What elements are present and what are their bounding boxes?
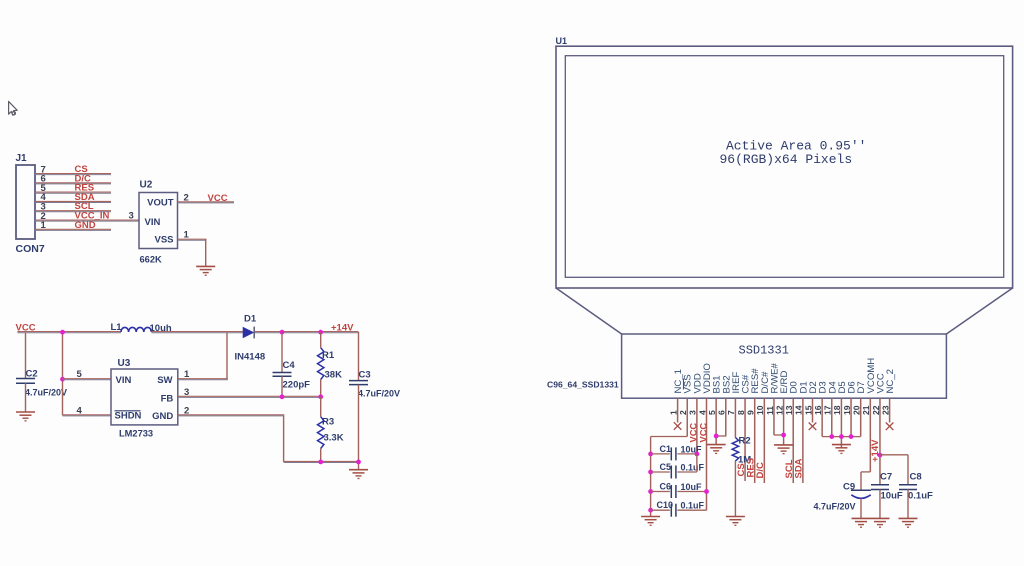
junction dot R3 bottom bbox=[318, 460, 323, 465]
svg-text:1: 1 bbox=[41, 220, 47, 231]
wire R2 to ground bbox=[734, 461, 736, 517]
resistor R2 value 1M bbox=[738, 455, 751, 466]
U1 pin name NC_2 bbox=[885, 369, 896, 394]
capacitor C4 bbox=[273, 373, 292, 377]
regulator U3 body bbox=[111, 369, 178, 425]
capacitor C10 bbox=[671, 504, 676, 517]
wire C1 left bbox=[651, 453, 670, 455]
resistor R1 bbox=[318, 348, 324, 380]
ground bottom right of boost bbox=[349, 470, 368, 479]
net label VCC on VDD pin bbox=[689, 423, 699, 443]
svg-text:VIN: VIN bbox=[116, 375, 132, 386]
U1 pin name CS# bbox=[741, 374, 752, 393]
ground under data pins bbox=[832, 445, 851, 454]
wire J1 pin 1 net GND bbox=[35, 229, 111, 230]
svg-text:+14V: +14V bbox=[870, 439, 881, 462]
U1 pin number 1 bbox=[668, 410, 678, 415]
capacitor C5 value bbox=[681, 462, 705, 472]
U3 part value LM2733 bbox=[119, 429, 153, 439]
svg-text:SDA: SDA bbox=[794, 458, 805, 478]
wire U1 pin 23 NC_2 bbox=[889, 398, 891, 422]
capacitor C9 bbox=[851, 490, 871, 498]
wire C7 to ground bbox=[879, 490, 881, 519]
junction dot D6 bbox=[849, 434, 854, 439]
wire SW up to rail bbox=[226, 333, 228, 380]
wire to U3 SHDN pin 4 bbox=[63, 415, 112, 416]
wire C6 left bbox=[651, 491, 670, 493]
capacitor C3 bbox=[349, 381, 368, 385]
U1 pin number 20 bbox=[851, 405, 861, 415]
ground under R2 bbox=[726, 517, 745, 526]
pin number 3 U3 FB bbox=[184, 387, 189, 398]
net label RES on pin 9 bbox=[745, 458, 756, 478]
resistor R3 label bbox=[322, 417, 334, 428]
U1 pin number 14 bbox=[794, 405, 804, 415]
junction dot left rail C1 bbox=[648, 452, 653, 457]
wire VSS elbow bbox=[651, 436, 688, 438]
capacitor C1 bbox=[671, 447, 676, 460]
capacitor C2 value bbox=[25, 388, 67, 398]
wire VCC rail left bbox=[17, 332, 121, 333]
capacitor C7 label bbox=[880, 472, 892, 483]
svg-text:1: 1 bbox=[184, 230, 190, 241]
U1 pin name VCOMH bbox=[866, 358, 877, 394]
wire U1 pin 10 D/C# bbox=[763, 398, 765, 483]
net label GND bbox=[75, 220, 96, 231]
wire to U3 VIN pin 5 bbox=[63, 379, 112, 380]
ground under C7 bbox=[870, 518, 889, 527]
capacitor C8 bbox=[899, 485, 917, 490]
display part name C96_64_SSD1331 bbox=[547, 380, 619, 390]
wire U1 pin 9 RES# bbox=[754, 398, 756, 483]
svg-text:D1: D1 bbox=[244, 314, 257, 325]
wire U3 GND pin 2 bbox=[178, 415, 284, 416]
display U1 left bezel line bbox=[556, 288, 622, 334]
U3 pin name VIN bbox=[116, 375, 132, 386]
wire C4 stem bottom bbox=[281, 376, 283, 397]
wire U3 SW pin 1 bbox=[178, 379, 228, 380]
wire J1 pin 3 net SCL bbox=[35, 211, 111, 212]
display U1 label bbox=[556, 36, 568, 46]
resistor R1 label bbox=[322, 350, 335, 361]
U1 pin number 10 bbox=[755, 405, 765, 415]
wire BS2 elbow bbox=[716, 435, 726, 437]
wire U1 pin 22 VCC bbox=[879, 398, 881, 485]
U1 pin name VDD bbox=[692, 373, 703, 393]
ground under BS pins bbox=[707, 445, 726, 454]
capacitor C1 value bbox=[681, 444, 703, 454]
pin number 2 U2 VOUT bbox=[184, 193, 189, 204]
capacitor C1 label bbox=[660, 444, 672, 454]
U1 pin name D/C# bbox=[760, 371, 771, 394]
wire C1 right bbox=[677, 453, 696, 455]
wire U1 pin 17 D4 bbox=[831, 398, 833, 436]
U1 pin name D1 bbox=[798, 381, 809, 393]
U1 pin name R/WE# bbox=[769, 362, 780, 393]
ground under ERD bbox=[774, 445, 793, 454]
wire C3 stem top bbox=[358, 332, 360, 381]
capacitor C3 label bbox=[359, 370, 371, 381]
U1 pin name D4 bbox=[827, 381, 838, 394]
U1 pin name NC_1 bbox=[673, 369, 684, 394]
capacitor C7 value 10uF bbox=[881, 491, 903, 502]
svg-text:2: 2 bbox=[184, 193, 189, 204]
U1 pin name D2 bbox=[808, 381, 819, 393]
U1 pin number 11 bbox=[765, 406, 775, 415]
junction dot C3 bottom bbox=[356, 460, 361, 465]
U1 pin number 13 bbox=[784, 405, 794, 415]
junction dot D5 bbox=[839, 434, 844, 439]
junction dot left rail C5 bbox=[648, 470, 653, 475]
svg-text:C3: C3 bbox=[359, 370, 371, 381]
svg-text:C8: C8 bbox=[910, 472, 922, 483]
U1 pin number 17 bbox=[823, 405, 833, 415]
wire R3 stub top bbox=[320, 397, 322, 417]
ground under C8 bbox=[899, 518, 918, 527]
svg-text:IN4148: IN4148 bbox=[235, 352, 266, 363]
svg-text:U2: U2 bbox=[140, 180, 153, 191]
U1 pin name D5 bbox=[837, 381, 848, 393]
net label SCL bbox=[75, 201, 94, 212]
connector J1 name CON7 bbox=[16, 243, 45, 255]
capacitor C7 bbox=[871, 485, 889, 490]
wire U1 pin 11 R/WE# bbox=[773, 398, 775, 435]
junction dot FB node bbox=[318, 394, 323, 399]
U1 pin name D6 bbox=[847, 381, 858, 393]
U1 pin name E/RD bbox=[779, 371, 790, 394]
U1 pin number 8 bbox=[736, 410, 746, 415]
capacitor C10 label bbox=[657, 500, 674, 510]
U1 pin number 2 bbox=[678, 410, 688, 415]
resistor R2 label bbox=[739, 436, 751, 447]
wire U1 pin 19 D6 bbox=[850, 398, 852, 436]
capacitor C6 bbox=[671, 485, 676, 498]
capacitor C5 bbox=[671, 466, 676, 479]
capacitor C2 bbox=[16, 379, 35, 384]
net label RES bbox=[75, 183, 95, 194]
wire rail L1 to D1 bbox=[151, 332, 243, 333]
ground under C2 bbox=[16, 412, 35, 421]
net label D/C on pin 10 bbox=[755, 462, 766, 479]
diode D1 bbox=[243, 327, 254, 339]
svg-text:LM2733: LM2733 bbox=[119, 429, 153, 439]
svg-text:VCC: VCC bbox=[689, 423, 699, 443]
U1 pin number 3 bbox=[688, 410, 698, 415]
net label CS bbox=[75, 164, 88, 175]
svg-text:VSS: VSS bbox=[154, 235, 173, 246]
wire C9 to ground bbox=[860, 499, 862, 519]
display active area text line 1 bbox=[726, 139, 866, 154]
pin number 3 J1 bbox=[41, 202, 46, 213]
capacitor C2 label bbox=[26, 369, 38, 380]
svg-text:2: 2 bbox=[184, 405, 189, 416]
capacitor C8 label bbox=[910, 472, 922, 483]
wire U1 pin 21 VCOMH bbox=[869, 398, 871, 472]
svg-text:U1: U1 bbox=[556, 36, 568, 46]
U1 pin name D7 bbox=[856, 381, 867, 393]
wire VDD down to C5 bbox=[696, 454, 698, 472]
wire C5 left bbox=[651, 471, 670, 473]
capacitor C3 value bbox=[358, 389, 400, 399]
pin number 1 U3 SW bbox=[184, 369, 190, 380]
U1 pin name VCC bbox=[875, 373, 886, 393]
inductor L1 label bbox=[111, 322, 123, 333]
display U1 inner screen bbox=[565, 56, 1003, 278]
U1 pin name BS2 bbox=[721, 375, 732, 393]
wire U1 pin 18 D5 bbox=[840, 398, 842, 448]
wire C5 right bbox=[677, 471, 696, 473]
resistor R2 bbox=[732, 438, 738, 462]
svg-text:4.7uF/20V: 4.7uF/20V bbox=[814, 502, 856, 512]
wire RWE elbow bbox=[774, 434, 784, 436]
wire U1 pin 14 D1 bbox=[802, 398, 804, 483]
U1 pin name D3 bbox=[818, 381, 829, 393]
capacitor C4 label bbox=[283, 360, 296, 371]
junction dot D4 bbox=[829, 434, 834, 439]
svg-text:38K: 38K bbox=[325, 370, 343, 381]
svg-text:J1: J1 bbox=[16, 153, 28, 164]
U2 pin name VSS bbox=[154, 235, 173, 246]
U2 pin name VOUT bbox=[147, 198, 174, 209]
U1 pin number 7 bbox=[726, 410, 736, 415]
svg-text:D/C: D/C bbox=[755, 462, 766, 479]
net label VCC on VDDIO pin bbox=[698, 423, 708, 443]
U3 pin name GND bbox=[152, 411, 173, 422]
svg-text:3: 3 bbox=[129, 211, 134, 222]
net label SDA on pin 14 bbox=[794, 458, 805, 478]
svg-text:VIN: VIN bbox=[145, 217, 161, 228]
diode D1 label bbox=[244, 314, 257, 325]
U1 pin name RES# bbox=[750, 368, 761, 394]
wire U3 FB pin 3 bbox=[178, 396, 321, 397]
wire VCOMH down bbox=[860, 472, 862, 490]
wire C8 to ground bbox=[907, 490, 909, 519]
U1 pin number 6 bbox=[717, 410, 727, 415]
diode D1 value IN4148 bbox=[235, 352, 266, 363]
junction dot C4 top bbox=[280, 330, 285, 335]
wire 14V to C8 bbox=[880, 454, 908, 456]
svg-text:C96_64_SSD1331: C96_64_SSD1331 bbox=[547, 380, 619, 390]
wire data bus elbow bbox=[822, 436, 861, 438]
svg-text:0.1uF: 0.1uF bbox=[681, 501, 705, 511]
svg-text:C1: C1 bbox=[660, 444, 672, 454]
ground under U2 bbox=[196, 266, 215, 275]
wire C3 stem bottom bbox=[358, 385, 360, 470]
wire U2 VSS pin 1 bbox=[178, 239, 207, 240]
svg-text:4.7uF/20V: 4.7uF/20V bbox=[25, 388, 67, 398]
wire U1 pin 15 D2 bbox=[812, 398, 814, 422]
U1 pin number 4 bbox=[697, 410, 707, 415]
capacitor C5 label bbox=[660, 462, 672, 472]
svg-text:5: 5 bbox=[77, 369, 83, 380]
resistor R3 value 3.3K bbox=[324, 433, 344, 444]
regulator U3 label bbox=[118, 358, 131, 369]
wire R1 stub top bbox=[320, 333, 322, 348]
pin number 2 J1 bbox=[41, 211, 46, 222]
capacitor C9 value bbox=[814, 502, 856, 512]
display U1 right bezel line bbox=[946, 288, 1012, 334]
wire U1 pin 4 VDDIO bbox=[706, 398, 708, 510]
junction dot VDDIO C6 bbox=[704, 489, 709, 494]
pin number 1 U2 VSS bbox=[184, 230, 190, 241]
capacitor C4 value 220pF bbox=[283, 380, 311, 391]
net label +14V bbox=[331, 323, 354, 334]
pin number 5 U3 bbox=[77, 369, 83, 380]
resistor R3 bbox=[318, 417, 324, 449]
pin number 4 J1 bbox=[41, 192, 47, 203]
wire U2 VOUT pin 2 bbox=[178, 202, 235, 203]
net label VCC rail bbox=[16, 323, 36, 334]
junction dot left rail C6 bbox=[648, 489, 653, 494]
U3 pin name SW bbox=[157, 375, 172, 386]
svg-text:+14V: +14V bbox=[331, 323, 354, 334]
wire C2 stem top bbox=[25, 333, 27, 379]
pin number 5 J1 bbox=[41, 183, 47, 194]
U1 pin number 21 bbox=[861, 405, 871, 415]
U1 pin name BS1 bbox=[712, 375, 723, 393]
capacitor C10 value bbox=[681, 501, 705, 511]
svg-text:3.3K: 3.3K bbox=[324, 433, 344, 444]
U1 pin name VDDIO bbox=[702, 363, 713, 393]
svg-text:4: 4 bbox=[77, 406, 83, 417]
wire U1 pin 12 E/RD bbox=[783, 398, 785, 445]
wire U1 pin 5 BS1 bbox=[715, 398, 717, 444]
net label +14V on VCC pin bbox=[870, 439, 881, 462]
U1 pin name D0 bbox=[789, 381, 800, 393]
wire C8 stem bbox=[907, 455, 909, 485]
wire U1 pin 7 IREF bbox=[734, 398, 736, 437]
wire C2 stem bottom bbox=[25, 383, 27, 412]
resistor R1 value 38K bbox=[325, 370, 343, 381]
net label SDA bbox=[75, 192, 95, 203]
wire GND down bbox=[283, 415, 285, 462]
op-amp U2 label bbox=[140, 180, 153, 191]
svg-text:C4: C4 bbox=[283, 360, 296, 371]
U1 pin number 15 bbox=[803, 405, 813, 415]
junction dot RWE ERD bbox=[781, 433, 786, 438]
pin number 7 J1 bbox=[41, 164, 46, 175]
svg-text:GND: GND bbox=[152, 411, 173, 422]
net label D/C bbox=[75, 173, 92, 184]
wire R1 stub bottom bbox=[320, 380, 322, 397]
U1 pin number 23 bbox=[880, 405, 890, 415]
ground under C9 bbox=[852, 518, 871, 527]
U2 pin name VIN bbox=[145, 217, 161, 228]
wire VCOMH elbow bbox=[861, 471, 870, 473]
wire U1 pin 13 D0 bbox=[792, 398, 794, 483]
wire J1 pin 4 net SDA bbox=[35, 201, 111, 202]
capacitor C6 label bbox=[660, 482, 672, 492]
display controller name SSD1331 bbox=[739, 344, 789, 358]
pin number 1 J1 bbox=[41, 220, 47, 231]
mouse cursor bbox=[9, 101, 18, 115]
wire C4 stem top bbox=[281, 333, 283, 373]
U1 pin number 9 bbox=[745, 410, 755, 415]
wire J1 pin 5 net RES bbox=[35, 192, 111, 193]
svg-text:VCC: VCC bbox=[698, 423, 708, 443]
U1 pin number 22 bbox=[871, 405, 881, 415]
wire J1 pin 6 net D/C bbox=[35, 183, 111, 184]
svg-text:VOUT: VOUT bbox=[147, 198, 174, 209]
junction dot VCC rail bbox=[60, 330, 65, 335]
svg-text:10uF: 10uF bbox=[681, 482, 703, 492]
ground under cap bank bbox=[641, 517, 660, 526]
wire U1 pin 2 VSS bbox=[686, 398, 688, 436]
svg-text:C6: C6 bbox=[660, 482, 672, 492]
junction dot VCC 14V bbox=[878, 453, 883, 458]
svg-text:GND: GND bbox=[75, 220, 96, 231]
wire U1 pin 3 VDD bbox=[696, 398, 698, 454]
svg-text:U3: U3 bbox=[118, 358, 131, 369]
U1 pin name IREF bbox=[731, 372, 742, 394]
svg-text:SW: SW bbox=[157, 375, 172, 386]
U2 part value 662K bbox=[140, 255, 163, 265]
svg-text:SSD1331: SSD1331 bbox=[739, 344, 789, 358]
wire U1 pin 1 NC_1 bbox=[677, 398, 679, 422]
inductor L1 bbox=[121, 327, 151, 332]
net label VCC at U2 output bbox=[208, 193, 228, 204]
display U1 outer body bbox=[556, 46, 1013, 288]
net label CS on pin 8 bbox=[736, 463, 747, 476]
U1 pin number 19 bbox=[842, 405, 852, 415]
wire U1 pin 8 CS# bbox=[744, 398, 746, 481]
capacitor C9 label bbox=[843, 482, 855, 493]
pin number 3 U2 VIN bbox=[129, 211, 134, 222]
U1 pin number 12 bbox=[774, 405, 784, 415]
svg-text:R3: R3 bbox=[322, 417, 334, 428]
wire J1 pin 2 net VCC_IN bbox=[35, 220, 139, 221]
wire U2 VSS to ground bbox=[205, 239, 207, 266]
inductor L1 value 10uh bbox=[150, 323, 172, 334]
wire R3 stub bottom bbox=[320, 449, 322, 462]
junction dot VDD C1 bbox=[694, 452, 699, 457]
svg-text:4.7uF/20V: 4.7uF/20V bbox=[358, 389, 400, 399]
wire rail D1 to C3 bbox=[255, 332, 359, 333]
no-connect X pin 1 bbox=[674, 422, 682, 430]
svg-text:FB: FB bbox=[161, 393, 174, 404]
U3 pin name FB bbox=[161, 393, 174, 404]
junction dot left rail C10 bbox=[648, 508, 653, 513]
no-connect X pin 23 bbox=[886, 423, 894, 431]
U3 pin name SHDN bbox=[115, 411, 142, 422]
svg-text:1: 1 bbox=[184, 369, 190, 380]
svg-text:C5: C5 bbox=[660, 462, 672, 472]
wire bottom rail bbox=[284, 461, 359, 462]
U1 pin number 5 bbox=[707, 410, 717, 415]
junction dot VIN branch bbox=[60, 377, 65, 382]
svg-text:R2: R2 bbox=[739, 436, 751, 447]
connector J1 body bbox=[16, 165, 35, 239]
svg-text:C7: C7 bbox=[880, 472, 892, 483]
svg-text:SHDN: SHDN bbox=[115, 411, 142, 422]
wire C10 right bbox=[677, 509, 706, 511]
wire C6 right bbox=[677, 491, 706, 493]
display U1 pin block bbox=[622, 334, 947, 398]
svg-text:0.1uF: 0.1uF bbox=[681, 462, 705, 472]
svg-text:0.1uF: 0.1uF bbox=[908, 491, 933, 502]
junction dot C4 bottom bbox=[280, 394, 285, 399]
wire U1 pin 20 D7 bbox=[860, 398, 862, 436]
junction dot R1 top bbox=[318, 330, 323, 335]
capacitor C8 value 0.1uF bbox=[908, 491, 933, 502]
wire VCC junction down bbox=[62, 332, 64, 415]
capacitor C6 value bbox=[681, 482, 703, 492]
svg-text:NC_2: NC_2 bbox=[885, 369, 896, 394]
svg-text:C10: C10 bbox=[657, 500, 674, 510]
svg-text:96(RGB)x64 Pixels: 96(RGB)x64 Pixels bbox=[720, 152, 853, 167]
svg-text:CON7: CON7 bbox=[16, 243, 45, 255]
svg-text:220pF: 220pF bbox=[283, 380, 311, 391]
